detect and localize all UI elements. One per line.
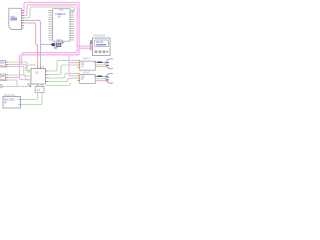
- sensor CN3 body: [0, 74, 8, 81]
- wire VCC pink inner loop: [8, 5, 77, 65]
- driver B left pins: [77, 73, 80, 80]
- IC U2 body: [31, 69, 46, 85]
- svg-text:DRV2: DRV2: [83, 70, 90, 74]
- IC U2 right pins: [46, 71, 49, 82]
- IC U1 body: [53, 9, 70, 42]
- wire red J1 down to U2: [22, 23, 38, 69]
- crystal X1 cluster: [52, 42, 64, 49]
- IC U1 right pin tips: [73, 11, 74, 40]
- module M1 pins: [19, 100, 21, 105]
- svg-text:Q1: Q1: [81, 61, 85, 65]
- wire VCC pink feed to drivers: [69, 55, 77, 76]
- svg-text:IF: IF: [4, 101, 7, 105]
- sensor CN2 body: [0, 61, 8, 68]
- driver A body: [80, 61, 96, 70]
- wire green sensor CN3 top to U2: [8, 75, 31, 80]
- wire green J1 to U1 pin: [22, 7, 75, 18]
- wire green sensor CN2 top to U2: [8, 62, 31, 72]
- wire green Y1 to module left: [21, 93, 38, 100]
- svg-text:L293D: L293D: [28, 63, 36, 67]
- module M1 body: [3, 97, 21, 109]
- wire green ground run left: [2, 86, 17, 88]
- IC U2 right pin tips: [48, 71, 49, 82]
- wire green U2 pin to driver B 2: [49, 78, 78, 81]
- svg-text:Y1: Y1: [37, 88, 41, 92]
- relay RY1 terminals: [95, 51, 105, 53]
- wire VCC pink outer vertical to lower sensor: [8, 55, 20, 78]
- wire blue branch below U1: [41, 44, 53, 46]
- wire green U2 pin to driver B: [49, 73, 78, 78]
- wire pink jog to U2 pin3: [20, 78, 32, 80]
- capacitor C4: [28, 84, 31, 88]
- connector J1 label block: [11, 18, 18, 21]
- svg-text:SPEAKER: SPEAKER: [93, 34, 105, 38]
- wire green U2 pin to driver A 2: [49, 65, 78, 75]
- svg-text:DIP28: DIP28: [56, 39, 63, 42]
- svg-text:DRV1: DRV1: [83, 57, 90, 61]
- svg-text:Q2: Q2: [81, 75, 85, 79]
- wire pink jog into U2 left side: [22, 65, 32, 71]
- driver B right wires: [95, 75, 107, 77]
- wire green U2 pin to driver A: [49, 60, 78, 71]
- wire pink branch to relay pins 2: [79, 47, 90, 49]
- wire blue J1 down to U2: [22, 20, 41, 68]
- IC U2 left pins: [29, 72, 32, 80]
- IC U1 notch: [60, 9, 63, 11]
- svg-text:U2: U2: [35, 71, 39, 75]
- motor MT1: [106, 59, 116, 69]
- driver A left pins: [77, 60, 80, 67]
- IC U1 left pin tips: [49, 11, 50, 40]
- crystal Y1 body: [35, 87, 44, 93]
- driver B body: [80, 75, 96, 84]
- junction dot U2 blue entry: [40, 67, 42, 68]
- wire green Y1 to module right: [21, 93, 43, 105]
- connector J1 body: [9, 8, 22, 29]
- wire pink branch to relay pins: [77, 45, 90, 47]
- wire VCC pink outer loop: [22, 3, 80, 55]
- driver A right wires: [95, 61, 107, 63]
- IC U1 right pins: [70, 11, 74, 40]
- wire green sensor CN2 bottom to U2: [8, 67, 31, 77]
- wire green sensor CN3 bottom down: [8, 80, 28, 87]
- relay RY1 body: [93, 38, 111, 56]
- wire pink riser near crystal: [36, 44, 38, 52]
- terminal T1: [0, 85, 2, 88]
- IC U1 left pins: [49, 11, 53, 40]
- IC U2 bottom pins: [38, 84, 43, 87]
- relay RY1 pin block: [90, 41, 93, 44]
- relay RY1 inner box: [95, 40, 109, 47]
- motor MT2: [106, 73, 116, 83]
- connector J1 pins: [22, 10, 25, 28]
- IC U2 top pins: [38, 67, 41, 69]
- svg-text:SP-01: SP-01: [96, 40, 104, 44]
- wire pink stub J1 pin: [22, 13, 28, 16]
- wire VCC pink branch to driver A: [69, 62, 77, 64]
- wire green U2 bottom run: [46, 83, 70, 86]
- pin1 mark U2: [43, 66, 45, 67]
